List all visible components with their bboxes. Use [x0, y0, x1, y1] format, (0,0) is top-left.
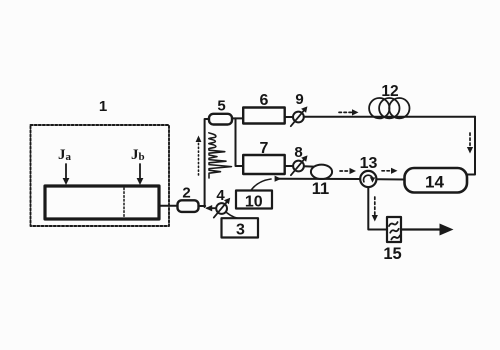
- wire circulator 13 down to filter 15: [368, 187, 387, 229]
- dashed enclosure box 1: [31, 125, 170, 226]
- dotted up arrow beside spectrum: [198, 141, 200, 175]
- wire box 7 to modulator 8: [285, 165, 294, 167]
- dashed arrow between 11 and 13: [340, 170, 350, 172]
- dashed arrow on top wire: [339, 111, 352, 113]
- pump arrow Jb: [139, 164, 141, 179]
- output wire with arrowhead: [401, 228, 441, 230]
- isolator 2: [178, 200, 199, 212]
- curve modulator 4 to driver 3: [227, 213, 243, 219]
- svg-text:6: 6: [260, 92, 269, 109]
- driver box 3: [222, 218, 259, 237]
- coupler 5: [209, 114, 232, 125]
- svg-text:3: 3: [236, 221, 245, 238]
- svg-text:4: 4: [216, 187, 225, 204]
- circulator 13: [360, 171, 376, 187]
- top wire 9 to right corner: [304, 116, 475, 118]
- svg-text:8: 8: [294, 144, 302, 161]
- curve from box 10 up to main wire with right arrowhead: [251, 179, 271, 190]
- svg-text:12: 12: [381, 83, 398, 100]
- wire box 6 to attenuator 9: [285, 116, 294, 118]
- modulator 4: [216, 203, 227, 214]
- fiber coil 12: [369, 98, 389, 118]
- modulator 8: [293, 161, 304, 172]
- dashed down arrow on right wire: [469, 133, 471, 147]
- wire modulator 4 to junction with left arrowhead: [207, 207, 217, 209]
- vertical wire junction to coupler 5: [205, 119, 210, 207]
- filter 15: [387, 217, 401, 242]
- svg-text:1: 1: [99, 98, 107, 115]
- svg-text:13: 13: [360, 155, 378, 172]
- comb spectrum sketch: [209, 133, 232, 178]
- box 7: [243, 155, 285, 174]
- right feedback wire down to 14: [467, 117, 476, 175]
- svg-text:10: 10: [245, 193, 263, 210]
- wire circulator 13 to SOA 14: [376, 178, 404, 180]
- section divider (dotted): [123, 188, 125, 218]
- svg-text:15: 15: [383, 245, 401, 263]
- box 10: [236, 191, 272, 209]
- svg-text:7: 7: [260, 140, 269, 157]
- box 6: [243, 108, 285, 124]
- svg-text:2: 2: [182, 185, 190, 202]
- wire isolator 2 to junction: [199, 205, 206, 207]
- SOA 14 (stadium): [405, 168, 468, 193]
- laser gain block: [45, 186, 159, 219]
- svg-text:11: 11: [312, 180, 329, 198]
- dashed arrow between 13 and 14: [382, 170, 392, 172]
- polarization controller 11 (oval): [311, 165, 332, 179]
- svg-text:14: 14: [425, 172, 444, 191]
- svg-text:5: 5: [217, 98, 225, 115]
- pump arrow Ja: [65, 164, 67, 179]
- wire to circulator 13: [277, 178, 361, 180]
- wire modulator 8 to controller 11: [304, 165, 314, 167]
- dashed down arrow below 13: [374, 197, 376, 215]
- svg-text:9: 9: [295, 91, 303, 108]
- wire coupler 5 to box 6 and T junction down to box 7: [232, 117, 244, 119]
- attenuator 9: [293, 112, 304, 123]
- wire laser to isolator 2: [159, 205, 178, 207]
